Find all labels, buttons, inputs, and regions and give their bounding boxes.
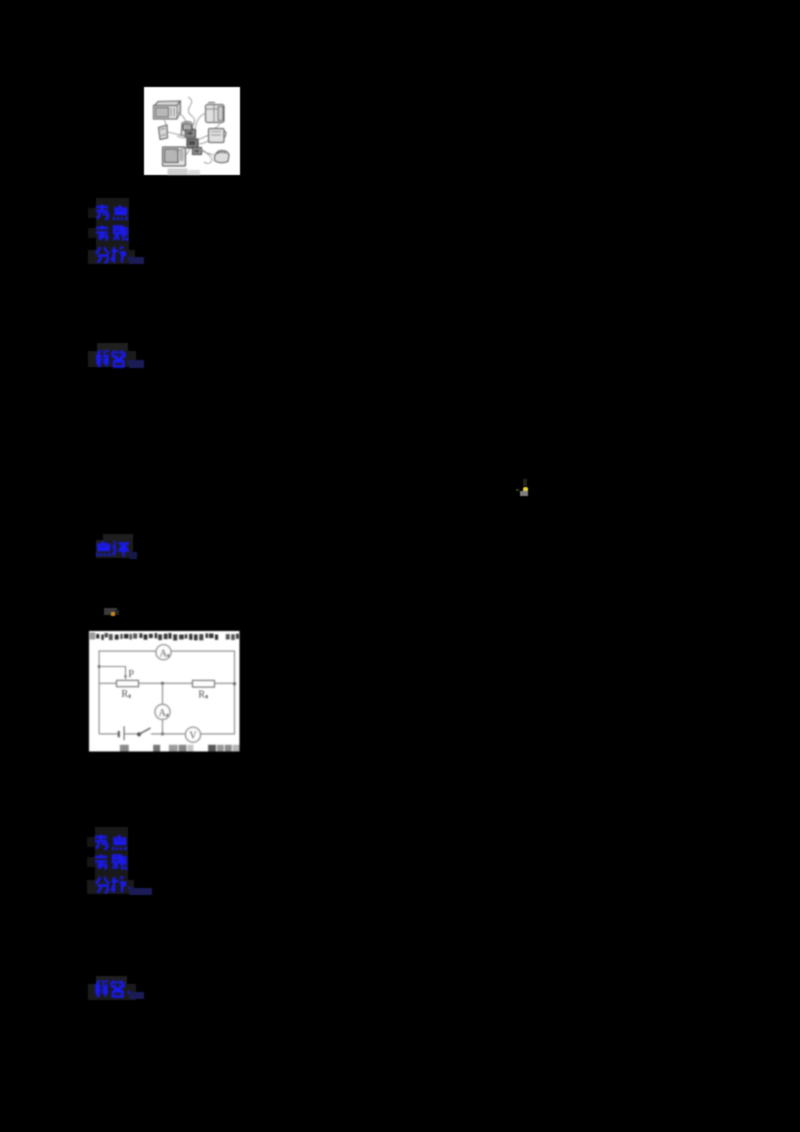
label 分析: (trio 1 line 3)	[95, 246, 135, 264]
shadow	[168, 169, 188, 176]
ghost block behind first label trio	[96, 198, 129, 264]
wire middle junction down to ammeter A1	[161, 683, 163, 704]
dark-blue smear after 点评:	[129, 552, 137, 559]
switch	[136, 732, 140, 736]
ammeter A2	[155, 644, 170, 659]
label 解答: (q2)	[94, 980, 134, 998]
resistor R2 body	[192, 680, 214, 687]
node bottom junction	[160, 732, 163, 735]
wire R1 to middle junction	[138, 682, 192, 684]
wire left and top side	[99, 651, 234, 734]
appliances picture (question 1 figure)	[144, 87, 240, 175]
svg-text:V: V	[189, 730, 197, 741]
wire R2 to right side	[214, 682, 234, 684]
rice cooker top-right	[206, 103, 225, 123]
slider arrow onto rheostat	[123, 675, 126, 680]
svg-text:R: R	[198, 689, 205, 700]
circuit image block	[89, 631, 240, 752]
label 考点 (trio 2 line 1)	[94, 834, 128, 851]
ghost blocks around 解答 1	[97, 343, 128, 351]
label 解答: (q1)	[95, 350, 135, 368]
dark-blue smear after 分析:	[129, 257, 145, 265]
label 专题 (trio 2 line 2)	[94, 854, 128, 871]
wire right side lower	[200, 683, 234, 733]
label 点评:	[96, 540, 136, 558]
cropped caption text row at top of figure	[89, 632, 238, 640]
wire to slider P	[99, 666, 125, 675]
power strip center	[183, 124, 202, 155]
cords	[164, 97, 220, 164]
svg-text:A: A	[158, 708, 166, 719]
right kettle	[209, 129, 227, 143]
dark-blue smear after 解答: (q2)	[129, 992, 144, 1000]
wire switch to V	[151, 732, 185, 734]
dark-blue smear after 分析: (trio 2)	[129, 888, 152, 895]
ghost block behind second label trio	[95, 827, 128, 893]
dark-blue smear after 解答:	[129, 360, 145, 368]
white background of scanned figure	[89, 631, 240, 752]
wire bottom left segment	[99, 732, 118, 734]
ghost blocks around 点评	[103, 534, 133, 541]
wire left side to rheostat R1	[99, 682, 116, 684]
microwave top-left	[154, 101, 181, 119]
wire A1 down to bottom wire	[161, 719, 163, 733]
iron bottom-right	[215, 150, 230, 162]
svg-text:A: A	[159, 648, 167, 659]
center pot	[181, 122, 194, 137]
speaker left	[159, 125, 168, 140]
voltmeter V	[185, 727, 200, 742]
node right junction	[232, 682, 235, 685]
ammeter A1	[154, 704, 169, 719]
node middle junction	[160, 681, 163, 684]
rheostat R1 body	[116, 680, 138, 686]
label 分析: (trio 2 line 3)	[95, 876, 135, 894]
tiny lightbulb icon	[523, 479, 527, 486]
node top-left junction	[97, 665, 100, 668]
tiny question icon before circuit	[104, 608, 117, 616]
cropped next text row at bottom of figure	[119, 744, 239, 751]
svg-text:R: R	[121, 689, 128, 700]
battery cell	[117, 731, 119, 737]
ghost blocks around 解答 2	[96, 976, 127, 984]
TV bottom-left	[163, 147, 186, 166]
label 专题 (trio 1 line 2)	[95, 225, 129, 242]
svg-text:P: P	[128, 668, 134, 679]
label 考点 (trio 1 line 1)	[95, 204, 129, 221]
